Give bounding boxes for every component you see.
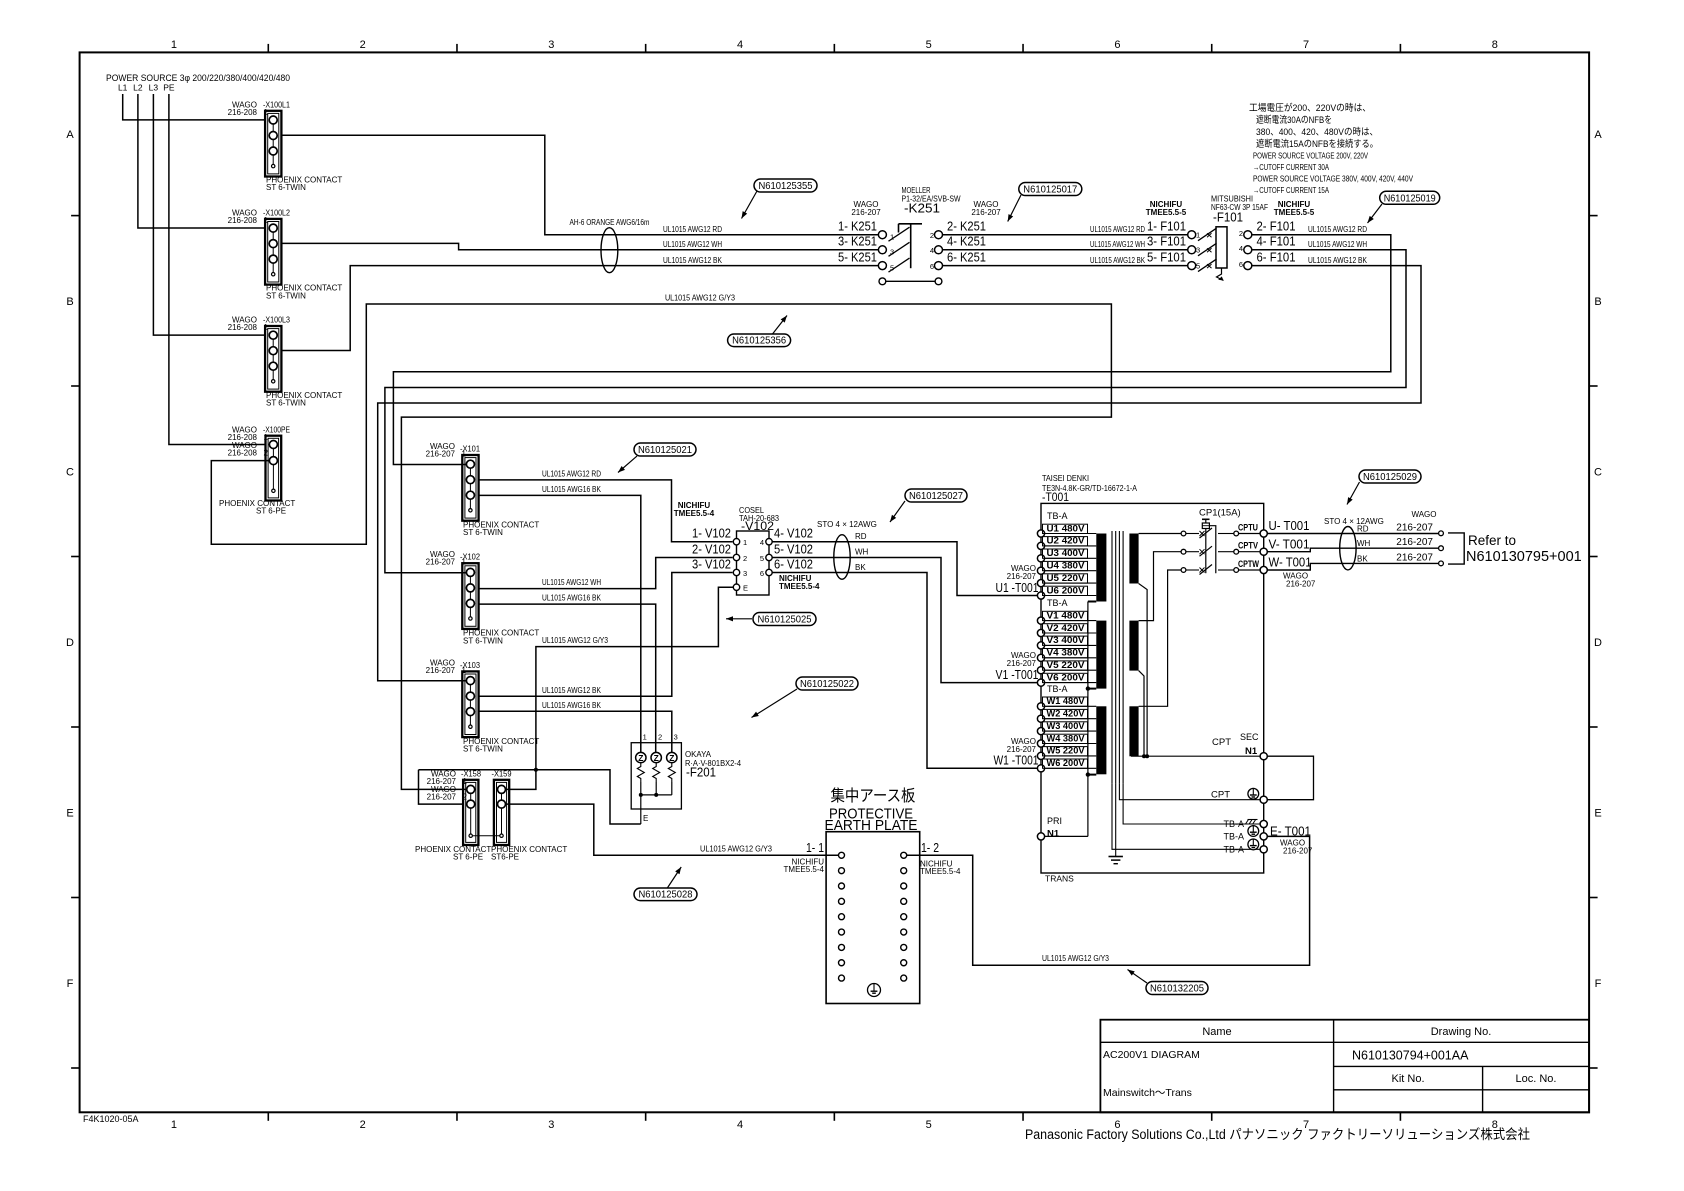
F201 element 2 — [651, 752, 661, 762]
wire X103 BK to V102 pin3 — [479, 573, 733, 697]
svg-text:U3 400V: U3 400V — [1047, 548, 1086, 558]
T001 tap U1 terminal — [1037, 530, 1044, 537]
svg-text:UL1015 AWG12 BK: UL1015 AWG12 BK — [1090, 256, 1146, 265]
svg-text:V4 380V: V4 380V — [1047, 648, 1086, 658]
svg-text:1: 1 — [171, 39, 177, 51]
svg-text:U5 220V: U5 220V — [1047, 573, 1086, 583]
svg-text:ST 6-PE: ST 6-PE — [256, 507, 286, 516]
reference bubble N610125025 — [726, 618, 752, 620]
reference bubble N610132205 — [1128, 970, 1148, 984]
svg-text:3: 3 — [1196, 246, 1200, 255]
svg-text:CPTW: CPTW — [1238, 559, 1259, 570]
T001 secondary U to CPTU wire — [1139, 533, 1181, 535]
svg-text:N610125355: N610125355 — [759, 180, 813, 192]
T001 primary common vertical to PRI N1 — [1087, 602, 1089, 837]
svg-text:N610130794+001AA: N610130794+001AA — [1352, 1049, 1469, 1063]
T001 tap U4 terminal — [1037, 567, 1044, 574]
svg-text:N610132205: N610132205 — [1150, 983, 1204, 995]
svg-text:2- K251: 2- K251 — [947, 219, 986, 234]
svg-text:W- T001: W- T001 — [1269, 556, 1312, 570]
wire X101 RD to V102 pin1 — [479, 480, 733, 542]
svg-text:216-207: 216-207 — [1396, 537, 1433, 548]
svg-text:1- 2: 1- 2 — [921, 840, 939, 855]
svg-text:1: 1 — [743, 538, 747, 547]
svg-text:2: 2 — [264, 449, 269, 458]
K251 pole 2 blade — [889, 242, 910, 256]
svg-text:B: B — [66, 296, 73, 308]
svg-text:ST 6-TWIN: ST 6-TWIN — [463, 636, 503, 645]
svg-text:ST 6-PE: ST 6-PE — [453, 852, 483, 861]
svg-text:U- T001: U- T001 — [1269, 519, 1310, 533]
T001 tap U3 terminal — [1037, 555, 1044, 562]
svg-text:UL1015 AWG12 G/Y3: UL1015 AWG12 G/Y3 — [542, 636, 608, 645]
T001 U secondary winding bar — [1129, 534, 1138, 584]
K251 pole 1 contacts — [878, 231, 886, 239]
CP1 pole 2 blade — [1200, 546, 1213, 556]
svg-text:5: 5 — [1196, 262, 1200, 271]
svg-text:AH-6 ORANGE AWG6/16m: AH-6 ORANGE AWG6/16m — [570, 218, 650, 227]
svg-text:216-207: 216-207 — [1007, 659, 1037, 668]
T001 CPT terminal with PE symbol — [1260, 796, 1267, 803]
svg-text:V1 -T001: V1 -T001 — [996, 667, 1039, 682]
svg-text:BK: BK — [855, 563, 866, 572]
T001 tap W3 terminal — [1037, 728, 1044, 735]
T001 tap W5 terminal — [1037, 752, 1044, 759]
svg-text:RD: RD — [1357, 525, 1369, 534]
svg-text:216-208: 216-208 — [228, 108, 258, 117]
svg-text:3- F101: 3- F101 — [1147, 234, 1186, 249]
K251 auxiliary contact — [879, 278, 886, 285]
T001 secondary U bottom to SEC N1 — [1139, 584, 1148, 757]
earth plate left pin 8 — [839, 960, 845, 966]
terminal block X100L2 — [265, 219, 281, 285]
svg-text:1- F101: 1- F101 — [1147, 219, 1186, 234]
svg-text:216-207: 216-207 — [426, 558, 456, 567]
svg-text:L1: L1 — [118, 83, 128, 93]
svg-text:N610125019: N610125019 — [1384, 192, 1436, 204]
svg-text:216-207: 216-207 — [426, 450, 456, 459]
wire between X158 and X159 small pins — [472, 835, 499, 837]
svg-text:W3 400V: W3 400V — [1047, 721, 1086, 731]
svg-text:216-208: 216-208 — [228, 216, 258, 225]
svg-text:WAGO: WAGO — [1411, 510, 1436, 519]
T001 V primary winding bar — [1096, 621, 1106, 689]
svg-text:1: 1 — [264, 216, 269, 225]
reference bubble N610125021 — [618, 456, 637, 473]
svg-text:C: C — [1594, 467, 1602, 479]
CP1 pole 3 blade — [1200, 565, 1213, 575]
svg-text:E: E — [643, 814, 648, 823]
svg-text:216-207: 216-207 — [971, 208, 1001, 217]
title block — [1100, 1020, 1589, 1113]
svg-text:3- K251: 3- K251 — [838, 234, 877, 249]
svg-text:2: 2 — [930, 231, 934, 240]
svg-text:216-207: 216-207 — [426, 666, 456, 675]
svg-text:216-207: 216-207 — [1283, 847, 1313, 856]
svg-text:1: 1 — [463, 777, 468, 786]
svg-text:6: 6 — [1239, 260, 1243, 269]
svg-text:6: 6 — [1114, 39, 1120, 51]
svg-text:PE: PE — [163, 83, 175, 93]
wire WH from X100L2 to K251 — [281, 243, 878, 249]
svg-text:V3 400V: V3 400V — [1047, 635, 1086, 645]
svg-text:W5 220V: W5 220V — [1047, 746, 1086, 756]
svg-text:216-207: 216-207 — [1007, 572, 1037, 581]
svg-text:4- V102: 4- V102 — [774, 526, 813, 541]
svg-text:E- T001: E- T001 — [1270, 824, 1311, 839]
svg-text:UL1015 AWG12 G/Y3: UL1015 AWG12 G/Y3 — [1042, 954, 1109, 963]
earth plate right pin 2 — [901, 868, 907, 874]
svg-text:V- T001: V- T001 — [1269, 537, 1310, 551]
T001 tap V1 terminal — [1037, 617, 1044, 624]
CP1 pole 1 blade — [1200, 528, 1213, 538]
svg-text:N610125025: N610125025 — [758, 614, 812, 626]
svg-text:5: 5 — [926, 39, 932, 51]
svg-text:N1: N1 — [1047, 829, 1060, 840]
svg-text:STO 4 × 12AWG: STO 4 × 12AWG — [817, 520, 877, 529]
svg-text:SEC: SEC — [1240, 732, 1259, 742]
wire PE drop to X100PE — [169, 94, 266, 445]
earth plate left pin 9 — [839, 975, 845, 981]
svg-text:N1: N1 — [1245, 746, 1258, 757]
F201 element 1 — [636, 752, 646, 762]
svg-text:UL1015 AWG16 BK: UL1015 AWG16 BK — [542, 701, 602, 710]
earth plate left pin 5 — [839, 914, 845, 920]
V102 pin 2 (left) — [733, 554, 739, 560]
svg-text:4: 4 — [1239, 244, 1243, 253]
wire X103 BK to F201 pin3 — [479, 711, 672, 752]
svg-text:F: F — [1595, 978, 1602, 990]
svg-text:6- F101: 6- F101 — [1257, 250, 1296, 265]
svg-text:→CUTOFF CURRENT 15A: →CUTOFF CURRENT 15A — [1253, 185, 1329, 195]
svg-text:216-207: 216-207 — [851, 208, 881, 217]
reference bubble N610125356 — [773, 316, 788, 335]
reference bubble N610125028 — [667, 867, 681, 889]
wire V102 pin6 to T001 W6 — [772, 573, 1037, 769]
earth plate right pin 6 — [901, 929, 907, 935]
svg-text:N610125356: N610125356 — [732, 335, 786, 347]
svg-text:TB-A: TB-A — [1223, 832, 1244, 842]
wire RD from X100L1 to K251 — [281, 135, 878, 234]
svg-text:POWER SOURCE VOLTAGE 380V,: POWER SOURCE VOLTAGE 380V, 400V, 420V, 4… — [1253, 174, 1413, 184]
V102 pin 5 (right) — [766, 554, 772, 560]
svg-text:3: 3 — [548, 39, 554, 51]
svg-text:2: 2 — [658, 733, 662, 742]
svg-text:N610125029: N610125029 — [1363, 471, 1417, 483]
V102 pin 1 (left) — [733, 539, 739, 545]
wire BK F101 to X103 (fold back) — [378, 266, 1421, 681]
F101 pole 2 contacts and blade — [1188, 246, 1196, 254]
T001 tap V4 terminal — [1037, 654, 1044, 661]
reference bubble N610125355 — [742, 191, 758, 219]
wire X159 pin2 to earth plate 1-1 — [506, 804, 839, 855]
T001 right edge terminals U/V/W — [1260, 530, 1267, 537]
svg-text:3- V102: 3- V102 — [692, 556, 731, 571]
T001 secondary W top riser to CPTW — [1139, 570, 1181, 706]
svg-text:PRI: PRI — [1047, 816, 1062, 826]
svg-text:Kit No.: Kit No. — [1391, 1073, 1424, 1085]
svg-text:A: A — [66, 129, 74, 141]
svg-text:4: 4 — [737, 1119, 743, 1131]
cable marker STO 4x12AWG (right) — [1340, 527, 1356, 570]
earth plate left pin 4 — [839, 898, 845, 904]
svg-text:-T001: -T001 — [1042, 492, 1069, 504]
svg-text:1: 1 — [462, 666, 467, 675]
wire V102 pin4 to T001 U6 — [772, 542, 1037, 596]
svg-text:216-207: 216-207 — [1007, 745, 1037, 754]
svg-text:CPT: CPT — [1212, 737, 1231, 748]
svg-text:2: 2 — [463, 793, 468, 802]
K251 pole 2 contacts — [878, 246, 886, 254]
svg-text:N610125028: N610125028 — [639, 889, 693, 901]
svg-text:1: 1 — [171, 1119, 177, 1131]
svg-text:ST 6-TWIN: ST 6-TWIN — [266, 398, 306, 407]
earth plate left pin 1 — [839, 852, 845, 858]
noise filter V102 (COSEL TAH-20-683) — [737, 531, 770, 595]
svg-text:1- V102: 1- V102 — [692, 526, 731, 541]
earth plate left pin 3 — [839, 883, 845, 889]
svg-text:UL1015 AWG12 G/Y3: UL1015 AWG12 G/Y3 — [665, 294, 735, 303]
svg-text:E: E — [1594, 808, 1601, 820]
svg-text:L3: L3 — [149, 83, 159, 93]
svg-text:D: D — [1594, 637, 1602, 649]
svg-text:Drawing No.: Drawing No. — [1431, 1026, 1492, 1038]
T001 tap U6 terminal — [1037, 592, 1044, 599]
svg-text:8: 8 — [1492, 39, 1498, 51]
wire WH F101 to X102 (fold back) — [385, 250, 1406, 573]
surge absorber F201 (OKAYA R-A-V-801BX2-4) — [631, 743, 681, 809]
svg-text:-X159: -X159 — [492, 769, 512, 779]
earth plate left pin 2 — [839, 868, 845, 874]
svg-text:5: 5 — [760, 554, 764, 563]
F201 E lead — [640, 795, 642, 824]
reference bubble N610125019 — [1368, 204, 1383, 223]
svg-text:216-208: 216-208 — [228, 449, 258, 458]
svg-text:TMEE5.5-4: TMEE5.5-4 — [784, 865, 825, 874]
earth plate left pin 7 — [839, 944, 845, 950]
svg-text:N610125017: N610125017 — [1023, 184, 1077, 196]
svg-text:2: 2 — [360, 39, 366, 51]
svg-text:UL1015 AWG12 BK: UL1015 AWG12 BK — [542, 686, 602, 695]
svg-text:TMEE5.5-5: TMEE5.5-5 — [1274, 208, 1315, 217]
K251 operating bar — [910, 224, 912, 268]
svg-text:2: 2 — [1239, 229, 1243, 238]
svg-text:5- F101: 5- F101 — [1147, 250, 1186, 265]
wire U-T001 output — [1267, 533, 1439, 535]
svg-text:216-207: 216-207 — [1396, 553, 1433, 564]
svg-text:6- V102: 6- V102 — [774, 556, 813, 571]
svg-text:UL1015 AWG12 RD: UL1015 AWG12 RD — [1090, 225, 1145, 234]
CP1 pole 3 contacts — [1181, 568, 1186, 573]
svg-text:B: B — [1594, 296, 1601, 308]
svg-text:2: 2 — [360, 1119, 366, 1131]
svg-text:2: 2 — [743, 554, 747, 563]
svg-text:UL1015 AWG12 WH: UL1015 AWG12 WH — [1308, 240, 1367, 249]
svg-text:N610125022: N610125022 — [800, 678, 854, 690]
svg-text:216-207: 216-207 — [1286, 580, 1316, 589]
svg-text:5- V102: 5- V102 — [774, 541, 813, 556]
svg-text:216-207: 216-207 — [427, 793, 457, 802]
svg-text:ST 6-TWIN: ST 6-TWIN — [463, 745, 503, 754]
K251 pole 1 blade — [889, 227, 910, 241]
V102 pin 3 (left) — [733, 569, 739, 575]
K251 pole 3 blade — [889, 258, 910, 272]
svg-text:遮断電流30AのNFBを: 遮断電流30AのNFBを — [1256, 114, 1332, 126]
svg-text:TMEE5.5-4: TMEE5.5-4 — [674, 509, 715, 518]
T001 SEC N1 row wire — [1131, 755, 1260, 757]
wire V102 E to PE bus — [536, 587, 733, 770]
svg-text:CPTV: CPTV — [1238, 541, 1259, 552]
column tick marks and numbers (bottom) — [267, 1112, 269, 1121]
svg-text:5: 5 — [890, 264, 894, 273]
T001 core to TB-A row3 wire — [1112, 784, 1260, 850]
wire earth plate 1-2 to T001 E terminal — [907, 836, 1310, 965]
svg-text:W4 380V: W4 380V — [1047, 733, 1086, 743]
svg-text:TMEE5.5-4: TMEE5.5-4 — [920, 867, 961, 876]
svg-text:U2 420V: U2 420V — [1047, 536, 1086, 546]
T001 core to ground wire — [1115, 784, 1117, 857]
svg-text:4: 4 — [930, 246, 934, 255]
output terminal circles — [1439, 531, 1444, 536]
svg-text:4: 4 — [760, 538, 764, 547]
terminal block X101 — [462, 455, 478, 521]
svg-text:-V102: -V102 — [741, 521, 774, 533]
CP1 element output link — [1209, 526, 1215, 574]
svg-text:集中アース板: 集中アース板 — [831, 787, 916, 805]
svg-text:D: D — [66, 637, 74, 649]
svg-text:2- F101: 2- F101 — [1257, 219, 1296, 234]
T001 tap U2 terminal — [1037, 542, 1044, 549]
svg-text:UL1015 AWG12 RD: UL1015 AWG12 RD — [1308, 225, 1367, 234]
svg-text:2- V102: 2- V102 — [692, 541, 731, 556]
T001 tap V2 terminal — [1037, 629, 1044, 636]
terminal block X102 — [462, 563, 478, 629]
svg-text:1: 1 — [264, 108, 269, 117]
svg-text:CP1(15A): CP1(15A) — [1199, 508, 1241, 519]
wire W-T001 output with jog — [1267, 563, 1439, 570]
svg-text:4- K251: 4- K251 — [947, 234, 986, 249]
V102 pin 4 (right) — [766, 539, 772, 545]
svg-text:UL1015 AWG16 BK: UL1015 AWG16 BK — [542, 485, 602, 494]
earth plate left pin 6 — [839, 929, 845, 935]
terminal block X100L1 — [265, 111, 281, 177]
svg-text:1: 1 — [462, 450, 467, 459]
cable marker AH-6 ORANGE ellipse — [601, 228, 618, 273]
svg-text:7: 7 — [1303, 39, 1309, 51]
F201 internal bus — [641, 794, 672, 796]
wire L1 drop to X100L1 — [123, 94, 265, 120]
svg-text:UL1015 AWG12 G/Y3: UL1015 AWG12 G/Y3 — [700, 845, 773, 854]
svg-text:4: 4 — [737, 39, 743, 51]
svg-text:-F201: -F201 — [686, 766, 716, 780]
reference bubble N610125027 — [890, 501, 905, 522]
svg-text:5: 5 — [926, 1119, 932, 1131]
svg-text:Panasonic Factory Solutions Co: Panasonic Factory Solutions Co.,Ltd パナソニ… — [1025, 1127, 1530, 1142]
earth plate right pin 7 — [901, 944, 907, 950]
svg-text:4- F101: 4- F101 — [1257, 234, 1296, 249]
svg-text:U6 200V: U6 200V — [1047, 585, 1086, 595]
svg-text:TMEE5.5-4: TMEE5.5-4 — [779, 582, 820, 591]
T001 secondary V top riser to CPTV — [1139, 552, 1181, 621]
svg-text:TB-A: TB-A — [1047, 598, 1068, 608]
earth plate right pin 9 — [901, 975, 907, 981]
svg-text:STO 4 × 12AWG: STO 4 × 12AWG — [1324, 517, 1384, 526]
svg-text:U4 380V: U4 380V — [1047, 561, 1086, 571]
svg-text:6: 6 — [760, 569, 764, 578]
CP1 thermal element — [1202, 518, 1210, 520]
wire L3 drop to X100L3 — [153, 94, 265, 335]
svg-text:1: 1 — [643, 733, 647, 742]
svg-text:UL1015 AWG12 WH: UL1015 AWG12 WH — [542, 578, 601, 587]
svg-text:N610125027: N610125027 — [909, 490, 963, 502]
wires CP1 to T001 right edge terminals — [1239, 533, 1260, 535]
svg-text:CPT: CPT — [1211, 790, 1230, 801]
T001 secondary V bottom to SEC N1 — [1139, 671, 1144, 757]
terminal block X159 — [494, 780, 509, 845]
svg-text:1: 1 — [1196, 231, 1200, 240]
svg-text:UL1015 AWG12 RD: UL1015 AWG12 RD — [542, 470, 601, 479]
wire RD F101 to X101 (fold back) — [393, 235, 1390, 465]
svg-text:3: 3 — [890, 248, 894, 257]
svg-text:遮断電流15AのNFBを接続する。: 遮断電流15AのNFBを接続する。 — [1256, 138, 1378, 150]
svg-text:Z: Z — [654, 753, 659, 763]
svg-text:Z: Z — [638, 753, 643, 763]
T001 tap V3 terminal — [1037, 642, 1044, 649]
svg-text:3: 3 — [548, 1119, 554, 1131]
T001 tap V5 terminal — [1037, 667, 1044, 674]
earth plate right pin 8 — [901, 960, 907, 966]
svg-text:W6 200V: W6 200V — [1047, 758, 1086, 768]
wire PE bus to X158 pin2 — [419, 770, 464, 804]
svg-text:EARTH PLATE: EARTH PLATE — [825, 817, 918, 834]
CP1 pole 1 contacts — [1181, 531, 1186, 536]
svg-text:U1 -T001: U1 -T001 — [996, 580, 1039, 595]
svg-text:TB-A: TB-A — [1223, 844, 1244, 854]
svg-text:Mainswitch～Trans: Mainswitch～Trans — [1103, 1087, 1192, 1099]
reference bubble N610125029 — [1347, 482, 1360, 505]
T001 SEC N1 terminal — [1260, 753, 1267, 760]
svg-text:BK: BK — [1357, 555, 1368, 564]
T001 W secondary winding bar — [1129, 706, 1138, 756]
svg-text:6: 6 — [930, 262, 934, 271]
svg-text:TB-A: TB-A — [1223, 819, 1244, 829]
svg-text:L2: L2 — [133, 83, 143, 93]
F101 pole 1 contacts and blade — [1188, 231, 1196, 239]
CP1 linkage bar — [1205, 529, 1207, 574]
protective earth plate — [826, 832, 920, 1004]
svg-text:Refer to: Refer to — [1468, 533, 1516, 548]
T001 U primary winding bar — [1096, 534, 1106, 602]
wire BK from X100L3 to K251 — [281, 266, 878, 351]
T001 tap W4 terminal — [1037, 740, 1044, 747]
T001 core lines — [1111, 531, 1113, 784]
svg-text:CPTU: CPTU — [1238, 523, 1258, 534]
svg-text:216-207: 216-207 — [1396, 523, 1433, 534]
T001 tap W2 terminal — [1037, 715, 1044, 722]
T001 W primary winding bar — [1096, 706, 1106, 774]
T001 core to CPT terminal wire — [1119, 784, 1260, 800]
svg-text:ST6-PE: ST6-PE — [491, 852, 519, 861]
svg-text:ST 6-TWIN: ST 6-TWIN — [463, 528, 503, 537]
svg-text:AC200V1 DIAGRAM: AC200V1 DIAGRAM — [1103, 1049, 1200, 1061]
svg-text:Name: Name — [1202, 1026, 1231, 1038]
svg-text:E: E — [66, 808, 73, 820]
wire X102 WH to V102 pin2 — [479, 558, 733, 589]
svg-text:WH: WH — [855, 548, 869, 557]
wire X102 BK to F201 pin2 — [479, 604, 656, 752]
svg-text:UL1015 AWG12 WH: UL1015 AWG12 WH — [663, 240, 722, 249]
V102 pin E — [733, 584, 739, 590]
